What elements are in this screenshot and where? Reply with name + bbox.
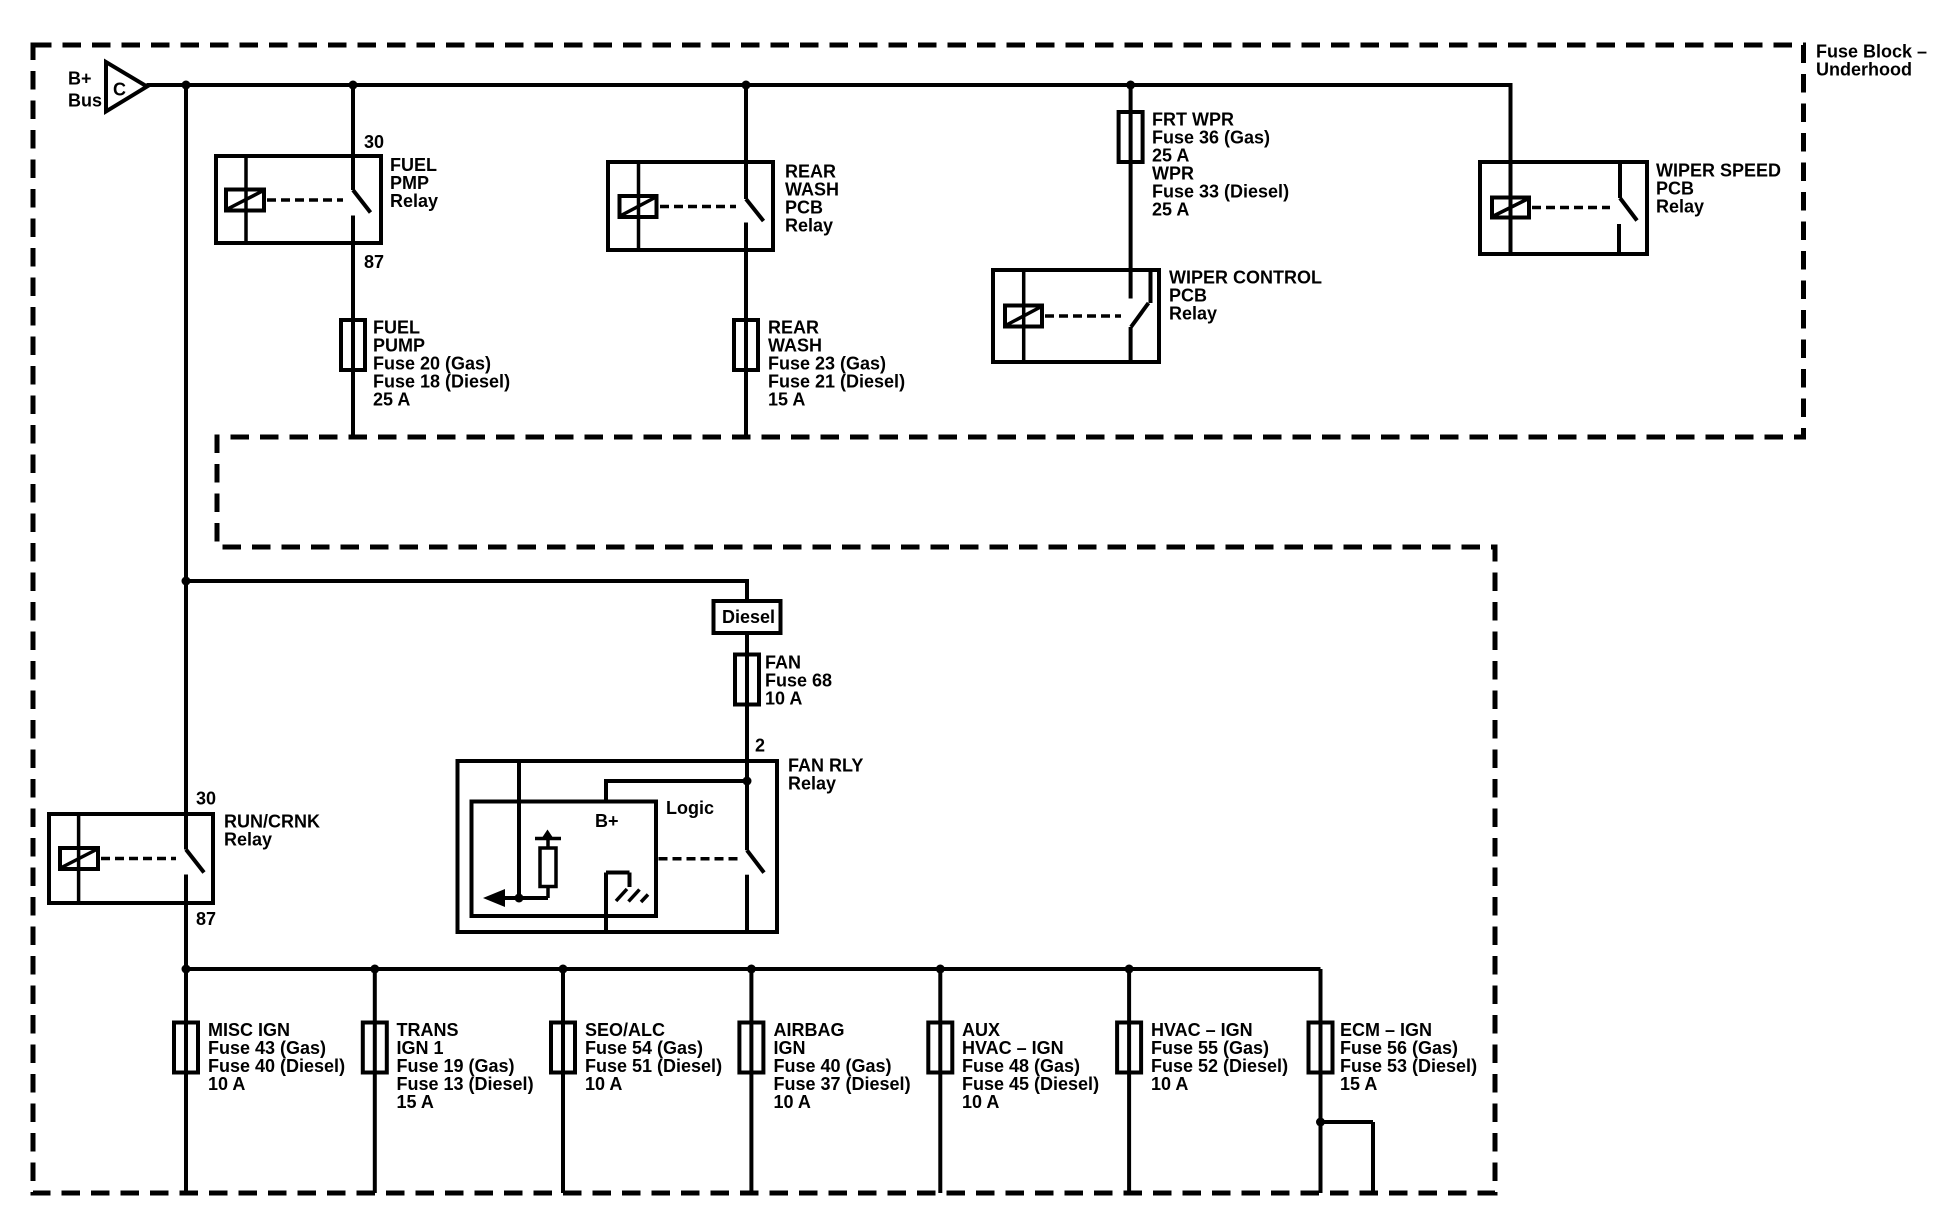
svg-text:Relay: Relay: [788, 774, 836, 794]
svg-text:Fuse 18 (Diesel): Fuse 18 (Diesel): [373, 372, 510, 392]
svg-text:Relay: Relay: [1656, 197, 1704, 217]
svg-text:IGN: IGN: [774, 1038, 806, 1058]
svg-text:WIPER SPEED: WIPER SPEED: [1656, 161, 1781, 181]
svg-text:Diesel: Diesel: [722, 607, 775, 627]
svg-text:HVAC – IGN: HVAC – IGN: [1151, 1020, 1253, 1040]
svg-text:Fuse 45 (Diesel): Fuse 45 (Diesel): [962, 1074, 1099, 1094]
svg-text:ECM – IGN: ECM – IGN: [1340, 1020, 1432, 1040]
svg-text:Bus: Bus: [68, 91, 102, 111]
svg-text:Fuse 23 (Gas): Fuse 23 (Gas): [768, 354, 886, 374]
svg-text:Relay: Relay: [1169, 304, 1217, 324]
svg-text:Fuse 53 (Diesel): Fuse 53 (Diesel): [1340, 1056, 1477, 1076]
svg-text:FRT WPR: FRT WPR: [1152, 110, 1234, 130]
svg-text:Fuse 21 (Diesel): Fuse 21 (Diesel): [768, 372, 905, 392]
svg-text:87: 87: [196, 909, 216, 929]
svg-text:IGN 1: IGN 1: [397, 1038, 444, 1058]
svg-text:C: C: [113, 80, 126, 100]
svg-text:B+: B+: [68, 69, 92, 89]
svg-text:WASH: WASH: [768, 336, 822, 356]
svg-text:PCB: PCB: [1169, 286, 1207, 306]
svg-text:Fuse 68: Fuse 68: [765, 671, 832, 691]
svg-text:25 A: 25 A: [1152, 146, 1189, 166]
svg-text:2: 2: [755, 736, 765, 756]
svg-text:WASH: WASH: [785, 180, 839, 200]
svg-text:10 A: 10 A: [774, 1092, 811, 1112]
svg-text:RUN/CRNK: RUN/CRNK: [224, 812, 320, 832]
svg-text:Fuse 54 (Gas): Fuse 54 (Gas): [585, 1038, 703, 1058]
svg-text:TRANS: TRANS: [397, 1020, 459, 1040]
svg-text:Fuse 52 (Diesel): Fuse 52 (Diesel): [1151, 1056, 1288, 1076]
svg-text:SEO/ALC: SEO/ALC: [585, 1020, 665, 1040]
svg-text:HVAC – IGN: HVAC – IGN: [962, 1038, 1064, 1058]
svg-text:10 A: 10 A: [765, 689, 802, 709]
svg-text:MISC IGN: MISC IGN: [208, 1020, 290, 1040]
svg-text:Logic: Logic: [666, 798, 714, 818]
svg-text:Fuse 40 (Diesel): Fuse 40 (Diesel): [208, 1056, 345, 1076]
svg-text:Fuse 51 (Diesel): Fuse 51 (Diesel): [585, 1056, 722, 1076]
svg-text:REAR: REAR: [768, 318, 819, 338]
svg-text:30: 30: [196, 789, 216, 809]
svg-text:Relay: Relay: [224, 830, 272, 850]
svg-text:Fuse 56 (Gas): Fuse 56 (Gas): [1340, 1038, 1458, 1058]
svg-text:25 A: 25 A: [373, 390, 410, 410]
svg-text:Fuse 55 (Gas): Fuse 55 (Gas): [1151, 1038, 1269, 1058]
svg-text:Fuse 40 (Gas): Fuse 40 (Gas): [774, 1056, 892, 1076]
svg-text:Fuse 20 (Gas): Fuse 20 (Gas): [373, 354, 491, 374]
svg-text:10 A: 10 A: [1151, 1074, 1188, 1094]
svg-text:Fuse 33 (Diesel): Fuse 33 (Diesel): [1152, 182, 1289, 202]
svg-text:FUEL: FUEL: [390, 155, 437, 175]
svg-text:15 A: 15 A: [397, 1092, 434, 1112]
svg-text:B+: B+: [595, 811, 619, 831]
svg-text:FUEL: FUEL: [373, 318, 420, 338]
svg-text:Fuse 19 (Gas): Fuse 19 (Gas): [397, 1056, 515, 1076]
svg-text:Fuse 43 (Gas): Fuse 43 (Gas): [208, 1038, 326, 1058]
svg-text:REAR: REAR: [785, 162, 836, 182]
svg-text:Fuse 37 (Diesel): Fuse 37 (Diesel): [774, 1074, 911, 1094]
svg-text:15 A: 15 A: [1340, 1074, 1377, 1094]
svg-text:Fuse 36 (Gas): Fuse 36 (Gas): [1152, 128, 1270, 148]
svg-text:FAN: FAN: [765, 653, 801, 673]
svg-text:87: 87: [364, 252, 384, 272]
svg-text:AUX: AUX: [962, 1020, 1000, 1040]
svg-text:PCB: PCB: [1656, 179, 1694, 199]
svg-text:AIRBAG: AIRBAG: [774, 1020, 845, 1040]
svg-text:Underhood: Underhood: [1816, 60, 1912, 80]
svg-text:10 A: 10 A: [208, 1074, 245, 1094]
svg-text:WPR: WPR: [1152, 164, 1194, 184]
svg-text:Relay: Relay: [390, 191, 438, 211]
svg-text:Fuse 48 (Gas): Fuse 48 (Gas): [962, 1056, 1080, 1076]
svg-text:Relay: Relay: [785, 216, 833, 236]
svg-text:25 A: 25 A: [1152, 200, 1189, 220]
svg-text:Fuse 13 (Diesel): Fuse 13 (Diesel): [397, 1074, 534, 1094]
svg-text:30: 30: [364, 132, 384, 152]
svg-text:PMP: PMP: [390, 173, 429, 193]
svg-text:FAN RLY: FAN RLY: [788, 756, 863, 776]
svg-text:WIPER CONTROL: WIPER CONTROL: [1169, 268, 1322, 288]
svg-text:Fuse Block –: Fuse Block –: [1816, 42, 1927, 62]
svg-text:10 A: 10 A: [585, 1074, 622, 1094]
svg-text:PUMP: PUMP: [373, 336, 425, 356]
svg-text:15 A: 15 A: [768, 390, 805, 410]
svg-text:10 A: 10 A: [962, 1092, 999, 1112]
svg-text:PCB: PCB: [785, 198, 823, 218]
